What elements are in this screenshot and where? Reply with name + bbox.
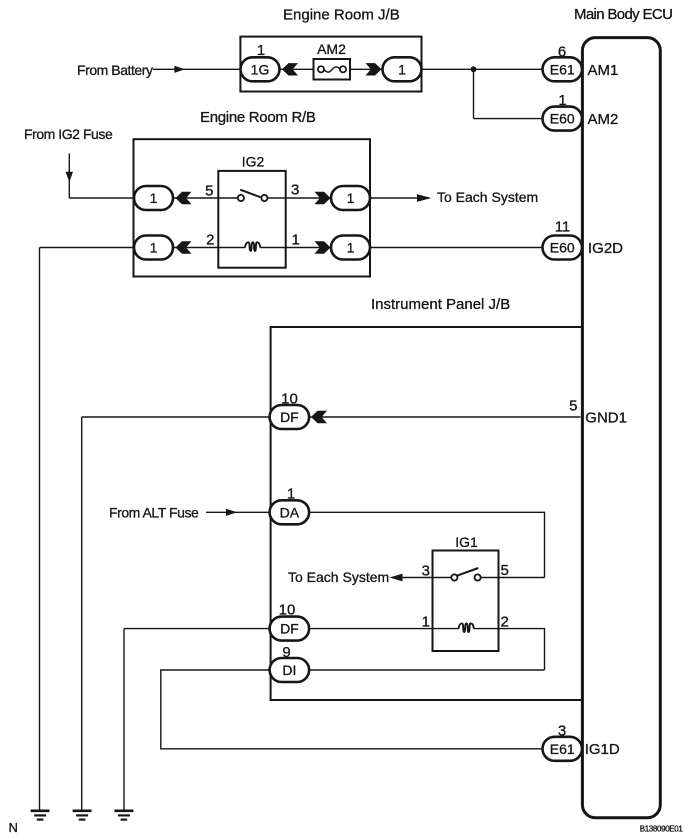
wire IG1 pin3 (401, 577, 433, 579)
svg-text:E61: E61 (550, 741, 575, 757)
arrow into connector 1 (366, 63, 382, 75)
wire ground2 vertical (81, 417, 83, 810)
wire RB row1 left (173, 197, 218, 199)
connector DI pin 9 (270, 658, 310, 682)
svg-text:DI: DI (282, 662, 296, 678)
svg-text:10: 10 (281, 391, 298, 408)
arrow into RB left connector row1 (176, 192, 192, 204)
relay IG2 box (218, 171, 285, 268)
wire RB row2 right (286, 247, 331, 249)
arrow into DF top (311, 411, 327, 423)
wire DF bottom to ground3 (124, 628, 271, 630)
arrow into 1G (282, 63, 298, 75)
arrow from ALT fuse (226, 509, 237, 516)
svg-text:DF: DF (280, 409, 299, 425)
connector 1 (Engine Room J/B right) (383, 57, 422, 81)
svg-text:1: 1 (347, 190, 355, 206)
svg-text:AM1: AM1 (588, 62, 619, 79)
svg-text:1: 1 (422, 614, 430, 631)
connector DF pin 10 bottom (270, 617, 310, 641)
svg-text:From IG2 Fuse: From IG2 Fuse (24, 126, 113, 142)
svg-text:1G: 1G (251, 61, 270, 77)
svg-text:Engine Room R/B: Engine Room R/B (200, 109, 316, 126)
svg-text:3: 3 (291, 182, 299, 199)
connector 1 RB row1 right (331, 186, 370, 210)
svg-text:Engine Room J/B: Engine Room J/B (283, 7, 400, 24)
svg-text:1: 1 (292, 231, 300, 248)
wire IG1 pin5 (499, 577, 545, 579)
svg-text:E60: E60 (550, 111, 575, 127)
block Engine Room R/B box (134, 139, 371, 276)
ground G3 (114, 811, 133, 820)
wire 1G to fuse AM2 (280, 68, 314, 70)
svg-text:AM2: AM2 (588, 111, 619, 128)
svg-text:6: 6 (558, 44, 566, 61)
wire IG2D feed (370, 247, 543, 249)
svg-text:9: 9 (282, 644, 290, 661)
wire GND1 (310, 416, 581, 418)
svg-text:DF: DF (280, 621, 299, 637)
wire from ALT fuse (206, 511, 271, 513)
wire ground1 horizontal (40, 247, 135, 249)
wire DA to IG1 pin5 column (310, 512, 545, 577)
block Engine Room J/B box (240, 37, 421, 92)
svg-text:From ALT Fuse: From ALT Fuse (109, 504, 199, 520)
svg-text:1: 1 (150, 240, 158, 256)
svg-text:From Battery: From Battery (77, 62, 153, 78)
connector E60 pin 11 (543, 236, 583, 260)
connector E61 pin 3 (543, 737, 583, 761)
node junction (471, 66, 477, 72)
svg-text:1: 1 (287, 486, 295, 503)
svg-text:E61: E61 (550, 61, 575, 77)
wire AM2 feed (474, 118, 543, 120)
svg-text:1: 1 (150, 190, 158, 206)
fuse AM2 (314, 59, 351, 80)
svg-text:E60: E60 (550, 240, 575, 256)
wire RB row2 left (173, 247, 218, 249)
svg-text:IG2: IG2 (242, 154, 265, 170)
connector 1G (241, 57, 280, 81)
svg-text:N: N (9, 820, 18, 835)
wire AM1 feed (422, 68, 543, 70)
svg-text:AM2: AM2 (317, 41, 346, 57)
wire to each system top (370, 197, 429, 199)
svg-text:1: 1 (558, 92, 566, 109)
connector 1 RB row2 right (331, 236, 370, 260)
wire ground3 vertical (123, 629, 125, 810)
wire DF top to ground2 (82, 416, 271, 418)
svg-text:IG2D: IG2D (588, 240, 623, 257)
svg-text:Main Body ECU: Main Body ECU (574, 6, 672, 23)
ground G1 (31, 811, 50, 820)
relay IG1 box (433, 551, 499, 652)
arrow to each system top (417, 194, 431, 202)
svg-text:2: 2 (206, 231, 214, 248)
connector 1 RB row1 left (134, 186, 173, 210)
svg-text:1: 1 (257, 42, 265, 59)
svg-text:5: 5 (501, 562, 509, 579)
svg-text:5: 5 (205, 182, 213, 199)
connector DA pin 1 (270, 500, 310, 524)
wire ground1 vertical (39, 248, 41, 811)
coil IG1 (433, 623, 499, 632)
arrow from battery (174, 66, 185, 73)
wire junction down (473, 69, 475, 118)
svg-text:B138090E01: B138090E01 (640, 825, 684, 834)
block Instrument Panel J/B box (271, 327, 582, 700)
connector E60 pin 1 (543, 107, 583, 131)
arrow to each system bottom (390, 574, 403, 582)
switch IG1 (433, 568, 499, 581)
connector DF pin 10 top (270, 405, 310, 429)
coil IG2 (218, 242, 285, 251)
wire IG2 fuse to relay (69, 197, 134, 199)
wire DF bottom to IG1 pin1 (310, 628, 433, 630)
arrow down IG2 fuse (66, 172, 73, 182)
wire fuse to connector 1 (350, 68, 383, 70)
ground G2 (73, 811, 92, 820)
svg-text:IG1D: IG1D (585, 741, 620, 758)
svg-text:To Each System: To Each System (437, 189, 538, 205)
svg-text:11: 11 (555, 219, 571, 236)
connector 1 RB row2 left (134, 236, 173, 260)
svg-text:To Each System: To Each System (288, 569, 389, 585)
arrow into RB left connector row2 (176, 241, 192, 253)
svg-text:5: 5 (569, 398, 577, 415)
connector E61 pin 6 (543, 57, 583, 81)
wire IG1 pin2 down to DI row (499, 629, 545, 670)
arrow into RB right connector row1 (315, 192, 331, 204)
wire DI to pin2 column (310, 669, 545, 671)
svg-text:1: 1 (398, 61, 406, 77)
svg-text:DA: DA (280, 504, 300, 520)
svg-text:10: 10 (279, 602, 296, 619)
svg-text:GND1: GND1 (585, 409, 627, 426)
wire IG2 fuse drop (68, 154, 70, 199)
wire RB row1 right (286, 197, 331, 199)
wire from battery (153, 68, 241, 70)
svg-text:3: 3 (558, 723, 566, 740)
svg-text:1: 1 (347, 240, 355, 256)
svg-text:IG1: IG1 (455, 534, 478, 550)
arrow into RB right connector row2 (315, 241, 331, 253)
switch IG2 (218, 190, 285, 201)
wire DI left leg (161, 670, 543, 749)
block Main Body ECU box U1 (582, 38, 660, 818)
svg-text:Instrument Panel J/B: Instrument Panel J/B (371, 296, 510, 313)
svg-text:3: 3 (422, 562, 430, 579)
